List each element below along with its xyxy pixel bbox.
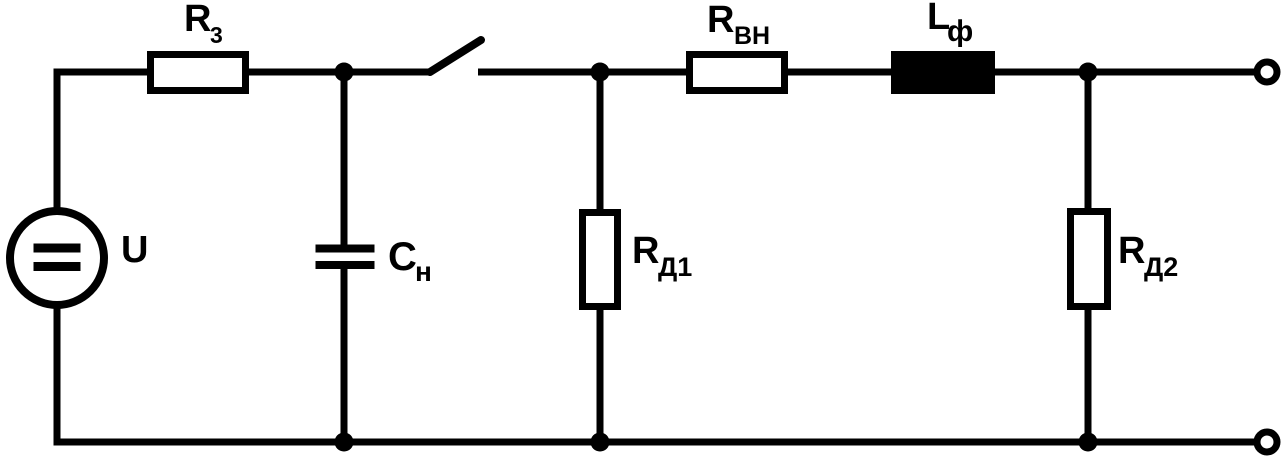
wire: Rvn to Lf: [784, 69, 895, 76]
svg-text:R: R: [184, 0, 211, 40]
wire: down to capacitor: [341, 72, 348, 247]
wire: Rd2 to bottom rail: [1085, 306, 1092, 442]
node: Rd1 tap: [591, 63, 610, 82]
node: Rd2 tap: [1079, 63, 1098, 82]
terminal: output bottom: [1257, 432, 1277, 452]
svg-text:н: н: [415, 256, 432, 287]
wire: capacitor to bottom rail: [341, 267, 348, 442]
svg-text:R: R: [632, 230, 659, 272]
switch (open blade): [430, 40, 481, 72]
resistor R3: [151, 0, 246, 91]
resistor Rvn: [690, 0, 785, 91]
node: bottom of Rd1 branch: [591, 433, 610, 452]
wire bottom rail: from source bottom down and right to output terminal: [57, 304, 1254, 442]
svg-text:3: 3: [210, 22, 223, 48]
wire top-left corner: from source up and right to R3: [57, 72, 150, 210]
svg-text:R: R: [1118, 230, 1145, 272]
svg-text:R: R: [707, 0, 734, 41]
node: bottom of Rd2 branch: [1079, 433, 1098, 452]
capacitor Cn: [316, 235, 432, 287]
wire: R3 to switch: [246, 69, 430, 76]
wire: Rd1 to bottom rail: [597, 306, 604, 442]
voltage source U: [10, 211, 148, 305]
svg-text:C: C: [388, 235, 417, 279]
svg-text:ф: ф: [947, 15, 973, 48]
svg-text:Д1: Д1: [658, 252, 692, 282]
wire: Lf to output terminal: [995, 69, 1254, 76]
terminal: output top: [1257, 62, 1277, 82]
svg-text:U: U: [121, 229, 148, 271]
node: Cn tap: [335, 63, 354, 82]
resistor Rd1: [583, 213, 693, 307]
wire: switch to Rvn: [478, 69, 690, 76]
resistor Rd2: [1071, 212, 1179, 307]
inductor Lf: [891, 0, 995, 94]
svg-text:ВН: ВН: [734, 22, 770, 50]
svg-text:Д2: Д2: [1144, 252, 1178, 282]
node: bottom of Cn branch: [335, 433, 354, 452]
wire: down to Rd1: [597, 72, 604, 212]
wire: down to Rd2: [1085, 72, 1092, 211]
